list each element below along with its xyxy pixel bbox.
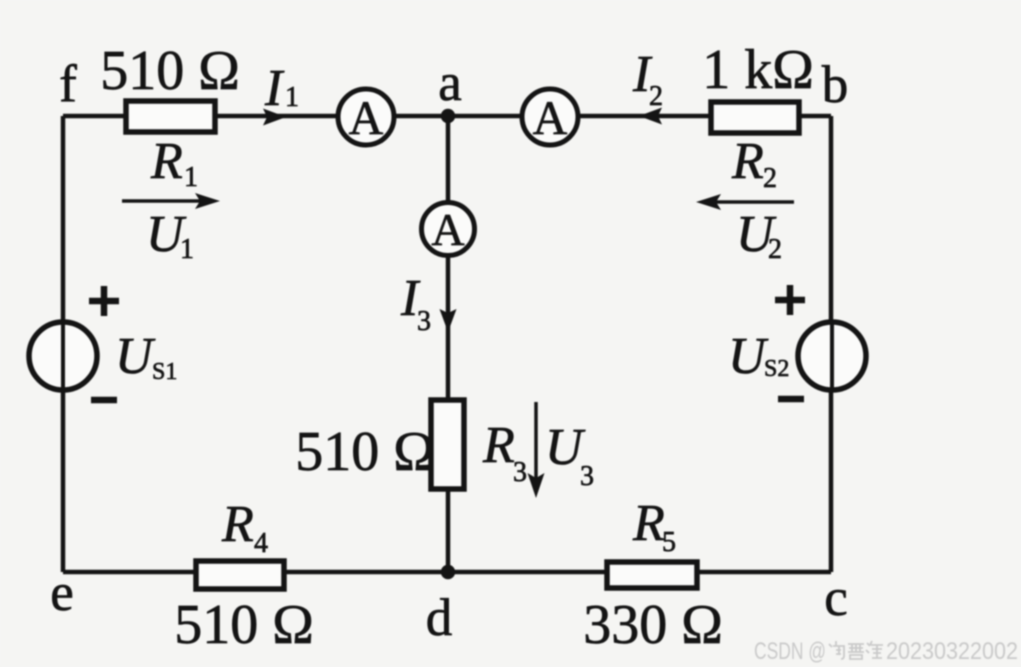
svg-text:R: R [482, 417, 515, 474]
svg-text:S2: S2 [764, 356, 789, 382]
svg-text:2: 2 [768, 234, 782, 265]
svg-text:3: 3 [417, 306, 431, 337]
svg-text:R: R [150, 133, 183, 190]
svg-text:3: 3 [513, 457, 527, 488]
svg-text:CSDN @: CSDN @ [754, 638, 826, 665]
svg-text:1: 1 [180, 234, 194, 265]
svg-text:A: A [533, 92, 568, 145]
svg-text:2: 2 [763, 163, 777, 194]
svg-text:R: R [632, 495, 665, 552]
svg-text:f: f [59, 55, 77, 113]
svg-text:e: e [50, 564, 74, 622]
svg-text:A: A [349, 92, 384, 145]
svg-text:a: a [438, 54, 462, 112]
svg-text:1: 1 [285, 82, 299, 113]
svg-text:510 Ω: 510 Ω [100, 40, 240, 102]
svg-text:1: 1 [184, 162, 198, 193]
svg-text:2: 2 [649, 81, 663, 112]
svg-text:R: R [221, 496, 254, 553]
svg-text:20230322002: 20230322002 [886, 638, 1018, 665]
svg-text:5: 5 [662, 527, 676, 558]
svg-text:I: I [264, 60, 285, 117]
svg-text:510 Ω: 510 Ω [174, 594, 314, 656]
svg-text:R: R [731, 133, 764, 190]
svg-text:d: d [426, 589, 453, 647]
svg-text:A: A [431, 204, 464, 255]
svg-text:510 Ω: 510 Ω [295, 421, 435, 483]
svg-text:U: U [728, 328, 769, 385]
svg-text:b: b [822, 56, 849, 114]
svg-text:330 Ω: 330 Ω [583, 594, 723, 656]
svg-text:3: 3 [580, 461, 594, 492]
svg-text:S1: S1 [152, 359, 177, 385]
svg-text:c: c [824, 569, 848, 627]
svg-text:U: U [115, 328, 156, 385]
svg-text:1 kΩ: 1 kΩ [702, 39, 814, 101]
svg-text:4: 4 [254, 528, 268, 559]
